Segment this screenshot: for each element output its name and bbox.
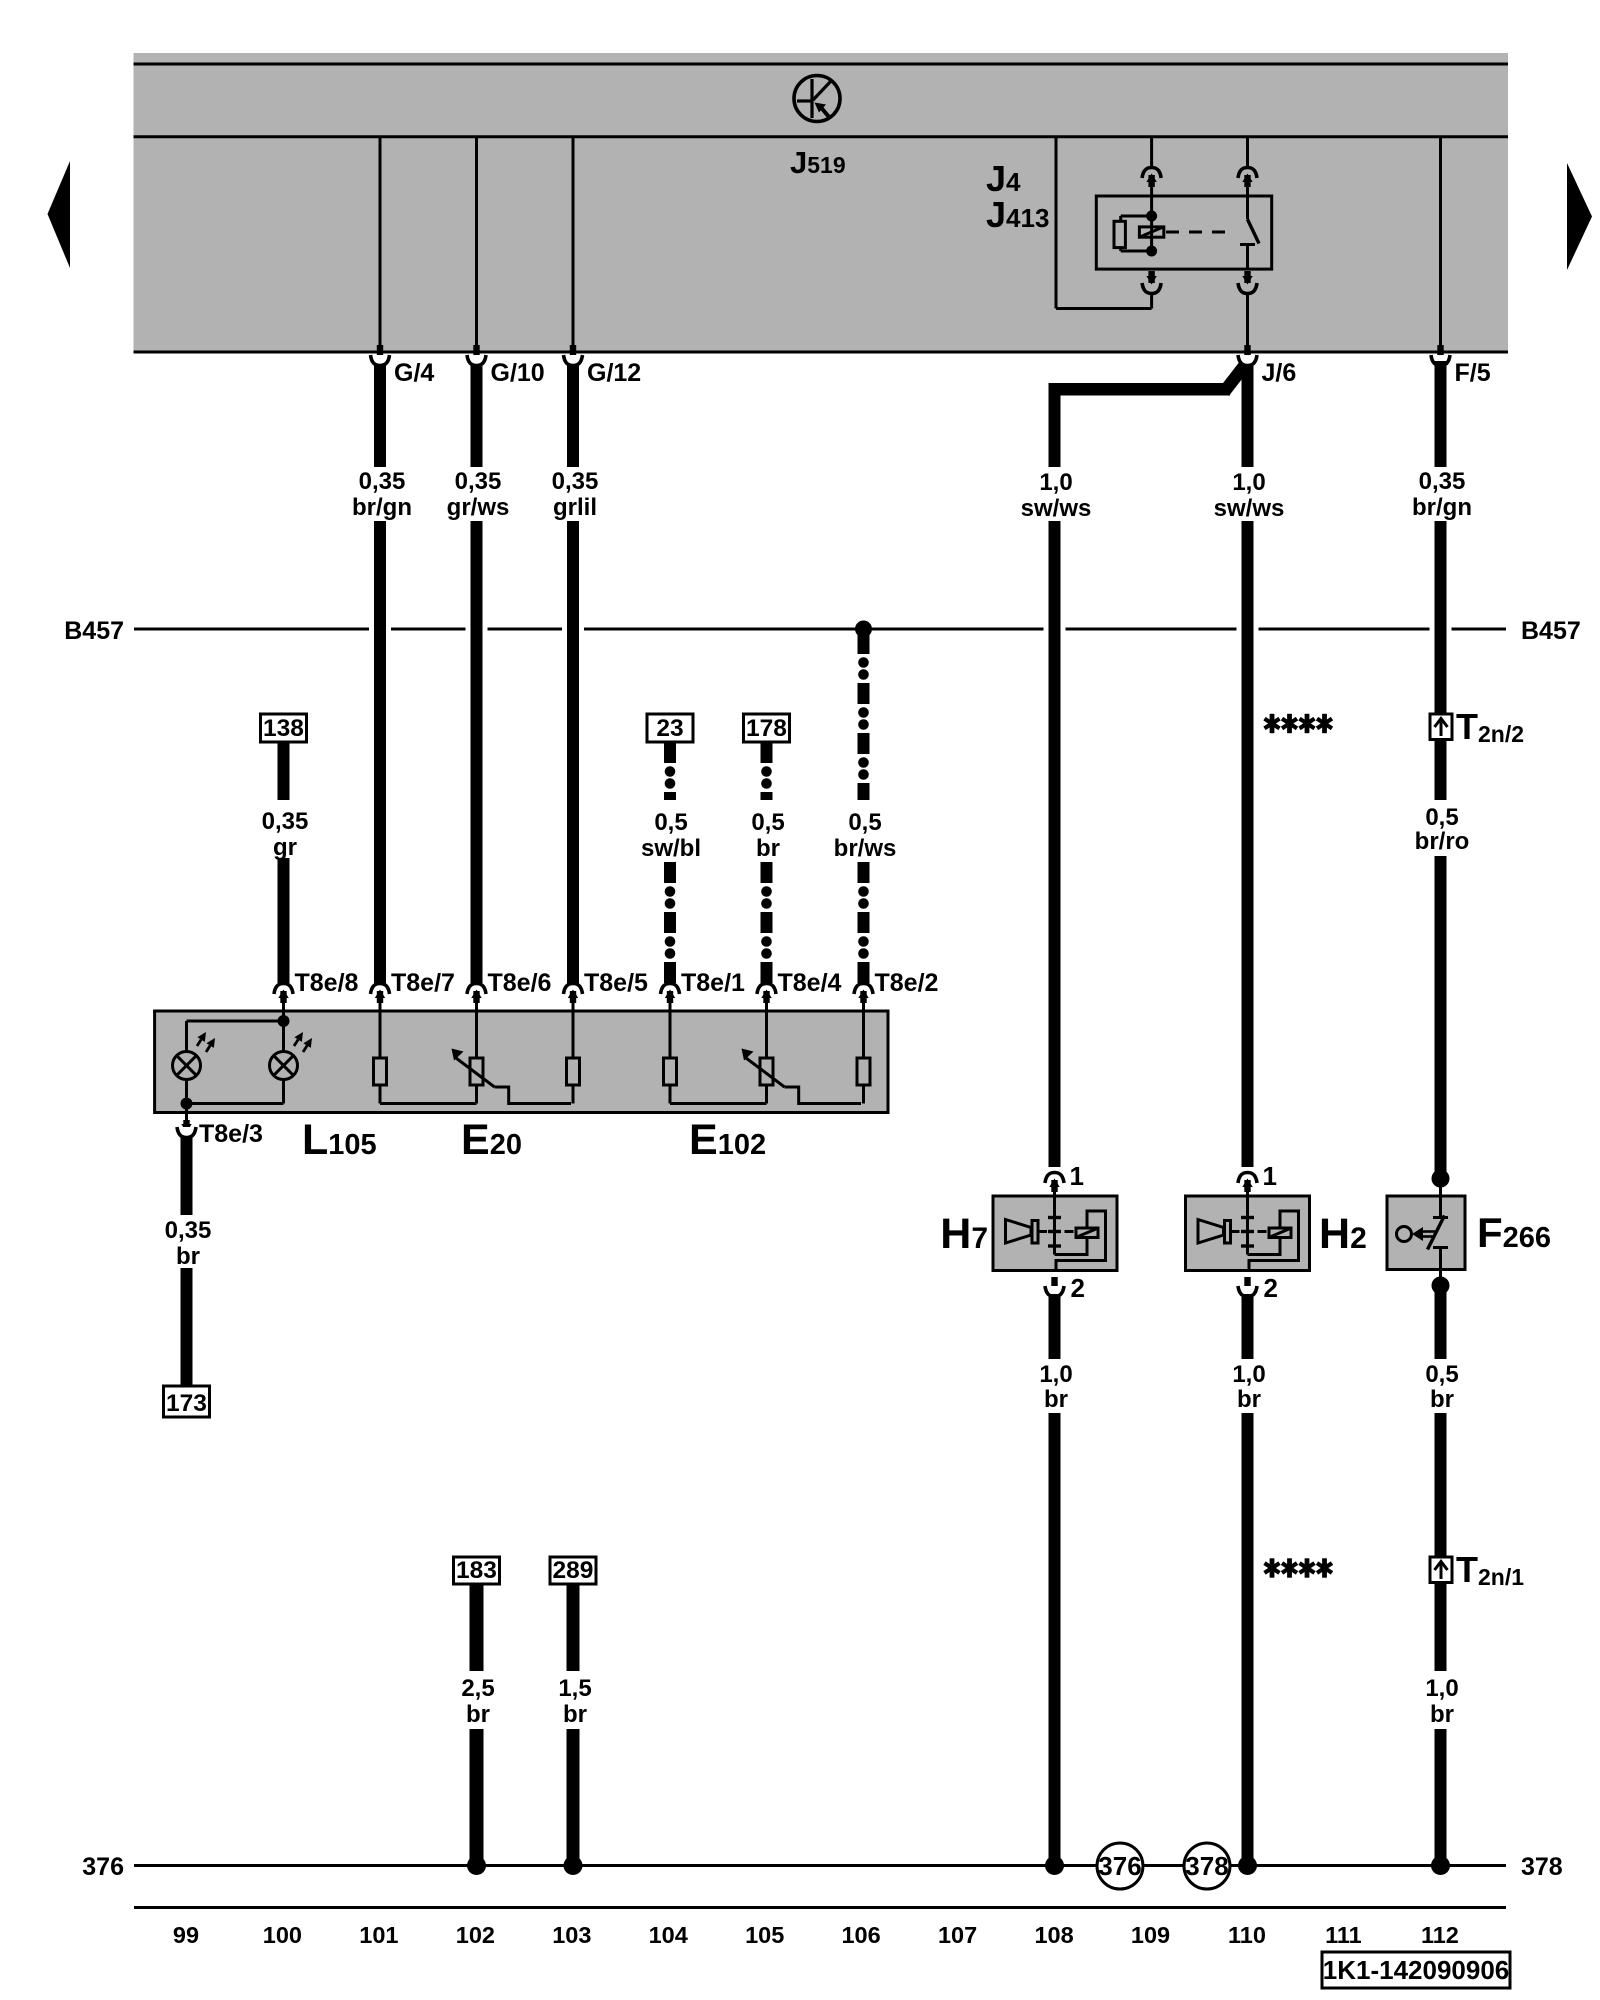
- svg-text:105: 105: [745, 1922, 784, 1948]
- svg-text:br: br: [466, 1701, 490, 1728]
- svg-text:B457: B457: [1521, 617, 1581, 645]
- potentiometer element E20: [470, 1011, 483, 1085]
- rail junction dot x=1247.5: [1238, 1856, 1257, 1875]
- svg-text:1: 1: [1070, 1161, 1084, 1191]
- svg-text:178: 178: [746, 715, 787, 742]
- label J413: [986, 194, 1049, 235]
- svg-text:107: 107: [938, 1922, 977, 1948]
- svg-text:br/gn: br/gn: [1412, 494, 1472, 521]
- wire 0,5 br lower dashed to T8e/4: [761, 862, 773, 983]
- junction dot coil bottom: [1146, 246, 1157, 257]
- wire 1,0 br upper below T2n/1: [1435, 1583, 1447, 1672]
- svg-text:br: br: [176, 1243, 200, 1270]
- wire 1,0 sw/ws upper (H7 branch): [1049, 395, 1061, 467]
- label 0,5 br/ws: [834, 809, 897, 862]
- wire pin T8e/2 into cluster: [862, 1001, 865, 1011]
- label T2n/2: [1456, 706, 1524, 747]
- wire switch pin into relay: [1246, 186, 1249, 219]
- ground box 183: [454, 1557, 500, 1584]
- label T2n/1: [1456, 1549, 1524, 1590]
- svg-text:376: 376: [82, 1853, 124, 1881]
- svg-text:sw/ws: sw/ws: [1021, 495, 1092, 522]
- lamp L105 left bulb: [173, 1021, 216, 1104]
- relay switch bottom plug connector: [1238, 271, 1257, 294]
- wire 0,5 br/ro to F266: [1435, 856, 1447, 1172]
- svg-text:1,0: 1,0: [1232, 469, 1265, 496]
- wire 1,0 br H2 to rail 378: [1242, 1413, 1254, 1862]
- wire 0,5 br/ws lower dashed to T8e/2: [858, 862, 870, 983]
- wire pin1 tail H7: [1053, 1190, 1056, 1196]
- wire 0,35 gr/ws lower to T8e/6: [471, 521, 483, 984]
- label F266: [1477, 1209, 1551, 1256]
- svg-text:T8e/7: T8e/7: [391, 969, 455, 997]
- connector T8e/4: [757, 984, 776, 1004]
- svg-text:0,5: 0,5: [848, 809, 881, 836]
- wire G/4 feed inside J519: [379, 138, 382, 347]
- horn H7 internals: [1006, 1196, 1106, 1271]
- relay coil bottom plug connector: [1142, 271, 1161, 294]
- J519 band inner top line: [134, 63, 1509, 66]
- ground box 289: [550, 1557, 596, 1584]
- svg-text:T8e/4: T8e/4: [778, 969, 842, 997]
- wire G/12 feed inside J519: [572, 138, 575, 347]
- relay coil top plug connector: [1142, 168, 1161, 188]
- wire pin T8e/1 into cluster: [669, 1001, 672, 1011]
- label 0,5 sw/bl: [641, 809, 701, 862]
- wire 2,5 br to rail 376: [470, 1729, 484, 1862]
- svg-text:103: 103: [552, 1922, 591, 1948]
- svg-text:T8e/6: T8e/6: [488, 969, 552, 997]
- wire F/5 feed inside J519: [1439, 138, 1442, 347]
- lamp return junction: [181, 1098, 284, 1113]
- wire 0,5 sw/bl lower dashed to T8e/1: [664, 862, 676, 983]
- wire 0,35 gr upper (138): [278, 742, 290, 800]
- label 0,5 br 178: [751, 809, 784, 862]
- svg-text:1,5: 1,5: [558, 1675, 591, 1702]
- label 1,0 sw/ws H7: [1021, 469, 1092, 522]
- svg-text:2,5: 2,5: [461, 1675, 494, 1702]
- resistor element T8e/2: [857, 1011, 870, 1085]
- wire T8e/8 to lamp junction: [187, 1011, 290, 1027]
- rail junction dot x=573: [564, 1856, 583, 1875]
- label 0,35 br/gn: [352, 468, 412, 521]
- svg-text:1,0: 1,0: [1425, 1675, 1458, 1702]
- rail junction dot x=1440.5: [1431, 1856, 1450, 1875]
- svg-text:1,0: 1,0: [1039, 469, 1072, 496]
- wire E102 group bottom link: [670, 1085, 864, 1104]
- svg-text:T8e/1: T8e/1: [681, 969, 745, 997]
- wire 0,35 br upper (T8e/3): [181, 1137, 193, 1215]
- left continuation arrow: [48, 161, 71, 268]
- junction dot below F266: [1432, 1277, 1450, 1295]
- svg-text:br: br: [756, 835, 780, 862]
- svg-text:E20: E20: [461, 1116, 522, 1164]
- svg-text:111: 111: [1325, 1922, 1362, 1948]
- relay switch contact: [1240, 219, 1259, 269]
- junction dot above F266: [1432, 1170, 1450, 1188]
- net B457 reference line: [134, 628, 1506, 631]
- net circle 378: [1184, 1843, 1230, 1889]
- ground box 173: [164, 1386, 210, 1417]
- svg-text:100: 100: [263, 1922, 302, 1948]
- svg-text:T8e/2: T8e/2: [875, 969, 939, 997]
- svg-text:0,35: 0,35: [262, 808, 309, 835]
- svg-text:J/6: J/6: [1262, 359, 1297, 387]
- wire relay coil return vertical: [1055, 138, 1058, 309]
- wire 0,35 br/gn upper (F/5): [1435, 361, 1447, 467]
- svg-text:0,35: 0,35: [1419, 468, 1466, 495]
- wire pin1 tail H2: [1246, 1190, 1249, 1196]
- svg-text:br: br: [1044, 1386, 1068, 1413]
- svg-text:110: 110: [1228, 1922, 1266, 1948]
- svg-text:1: 1: [1263, 1161, 1277, 1191]
- label 0,35 grlil: [552, 468, 599, 521]
- terminal G/10 on J519: [467, 345, 486, 366]
- svg-text:gr: gr: [273, 834, 297, 861]
- svg-text:99: 99: [173, 1922, 199, 1948]
- svg-text:0,5: 0,5: [1425, 804, 1458, 831]
- label L105: [302, 1116, 377, 1164]
- svg-text:1K1-142090906: 1K1-142090906: [1323, 1955, 1510, 1985]
- wire 1,0 br H7 to rail 376: [1049, 1413, 1061, 1862]
- wire pin T8e/5 into cluster: [572, 1001, 575, 1011]
- label 1,0 br H7: [1039, 1361, 1072, 1413]
- switch F266 box: [1387, 1196, 1465, 1270]
- wire 0,35 br/gn lower to T8e/7: [374, 521, 386, 984]
- junction dot B457 br/ws: [855, 621, 872, 638]
- svg-text:0,35: 0,35: [552, 468, 599, 495]
- svg-text:0,35: 0,35: [359, 468, 406, 495]
- svg-text:0,5: 0,5: [1425, 1361, 1458, 1388]
- terminal G/4 on J519: [371, 345, 390, 366]
- svg-text:gr/ws: gr/ws: [447, 494, 510, 521]
- rail junction dot x=1054.5: [1045, 1856, 1064, 1875]
- svg-text:br: br: [1237, 1386, 1261, 1413]
- wire relay switch feed from bus: [1246, 138, 1249, 168]
- horn H2 box: [1186, 1196, 1310, 1271]
- wire G/10 feed inside J519: [475, 138, 478, 347]
- svg-text:1,0: 1,0: [1232, 1361, 1265, 1388]
- label 1,0 br F column: [1425, 1675, 1458, 1728]
- wire relay coil feed from bus: [1150, 138, 1153, 168]
- wire 0,35 gr/ws upper (G/10): [471, 361, 483, 467]
- wire 0,35 gr to T8e/8: [278, 858, 290, 984]
- svg-text:H2: H2: [1319, 1210, 1367, 1258]
- svg-text:2: 2: [1071, 1273, 1085, 1303]
- connector T8e/8: [274, 984, 293, 1004]
- wire switch pin to J/6 terminal: [1246, 293, 1249, 347]
- wire 1,0 br to rail 378: [1435, 1729, 1447, 1862]
- svg-text:br/ro: br/ro: [1415, 828, 1470, 855]
- connector T8e/1: [661, 984, 680, 1004]
- circled K diagnosis symbol: [794, 76, 840, 122]
- svg-text:br/gn: br/gn: [352, 494, 412, 521]
- potentiometer E102 arrow and wiper: [742, 1049, 862, 1104]
- wire 1,0 br upper (H2): [1242, 1294, 1254, 1359]
- lamp L105 right bulb: [270, 1021, 313, 1104]
- wire 1,0 br upper (H7): [1049, 1294, 1061, 1359]
- label 0,5 br/ro: [1415, 804, 1470, 855]
- label 0,35 br/gn F/5: [1412, 468, 1472, 521]
- terminal J/6 on J519: [1238, 345, 1257, 366]
- inline connector T2n/2: [1430, 714, 1452, 740]
- wire into F266: [1439, 1178, 1442, 1196]
- svg-text:G/10: G/10: [491, 359, 545, 387]
- label J519: [790, 145, 846, 180]
- label E20: [461, 1116, 522, 1164]
- control unit J519 gray band: [134, 53, 1509, 353]
- wire relay coil return horizontal: [1056, 307, 1152, 310]
- wire 0,35 grlil lower to T8e/5: [567, 521, 579, 984]
- svg-text:104: 104: [649, 1922, 688, 1948]
- wire 1,5 br upper (289): [567, 1584, 580, 1671]
- svg-text:T8e/5: T8e/5: [584, 969, 648, 997]
- svg-text:E102: E102: [689, 1116, 766, 1164]
- wire 2,5 br upper (183): [470, 1584, 484, 1671]
- svg-text:T2n/1: T2n/1: [1456, 1549, 1524, 1590]
- svg-text:101: 101: [359, 1922, 398, 1948]
- horn H2 internals: [1198, 1196, 1299, 1271]
- wire 0,5 br/ws upper dashed from B457: [858, 633, 870, 800]
- svg-text:0,5: 0,5: [751, 809, 784, 836]
- ground rail 376/378: [134, 1864, 1506, 1867]
- wire pin T8e/6 into cluster: [475, 1001, 478, 1011]
- svg-text:183: 183: [456, 1557, 497, 1584]
- svg-text:0,35: 0,35: [165, 1217, 212, 1244]
- relay coil element: [1139, 216, 1163, 251]
- terminal F/5 on J519: [1431, 345, 1450, 366]
- terminal G/12 on J519: [564, 345, 583, 366]
- label 0,35 br: [165, 1217, 212, 1270]
- label 1,0 sw/ws H2: [1214, 469, 1285, 522]
- svg-text:102: 102: [456, 1922, 495, 1948]
- splice box 138: [261, 714, 307, 742]
- relay switch top plug connector: [1238, 168, 1257, 188]
- svg-text:2: 2: [1264, 1273, 1278, 1303]
- svg-text:G/12: G/12: [587, 359, 641, 387]
- potentiometer element E102: [760, 1011, 773, 1085]
- label 1,0 br H2: [1232, 1361, 1265, 1413]
- wire 0,5 br upper dashed: [761, 742, 773, 800]
- wire 0,5 sw/bl upper dashed: [664, 742, 676, 800]
- wire branch horizontal to H7 column: [1049, 383, 1231, 396]
- svg-text:289: 289: [553, 1557, 594, 1584]
- inline connector T2n/1: [1430, 1557, 1452, 1583]
- svg-text:F/5: F/5: [1455, 359, 1491, 387]
- svg-text:0,35: 0,35: [455, 468, 502, 495]
- wire 1,0 sw/ws to H2: [1242, 521, 1254, 1167]
- right continuation arrow: [1567, 163, 1592, 270]
- switch F266 internals: [1397, 1196, 1449, 1270]
- svg-text:112: 112: [1421, 1922, 1459, 1948]
- relay J4/J413 outline: [1096, 196, 1271, 269]
- connector T8e/6: [467, 984, 486, 1004]
- wire E20 group bottom link: [380, 1085, 573, 1104]
- svg-text:L105: L105: [302, 1116, 377, 1164]
- svg-text:B457: B457: [64, 617, 124, 645]
- rail junction dot x=476.5: [467, 1856, 486, 1875]
- svg-text:0,5: 0,5: [654, 809, 687, 836]
- instrument cluster box: [155, 1011, 888, 1113]
- svg-text:1,0: 1,0: [1039, 1361, 1072, 1388]
- wire coil pin into relay: [1150, 186, 1153, 216]
- horn H7 box: [993, 1196, 1117, 1271]
- svg-text:T8e/3: T8e/3: [199, 1120, 263, 1148]
- svg-text:F266: F266: [1477, 1209, 1551, 1256]
- connector T8e/3: [177, 1120, 196, 1138]
- label J4: [986, 158, 1021, 199]
- label 0,35 gr: [262, 808, 309, 861]
- svg-text:sw/ws: sw/ws: [1214, 495, 1285, 522]
- label 1,5 br: [558, 1675, 591, 1728]
- resistor element T8e/7: [374, 1011, 387, 1085]
- connector T8e/2: [854, 984, 873, 1004]
- note asterisks upper: [1265, 714, 1333, 733]
- wire 0,5 br/ro upper: [1435, 740, 1447, 801]
- resistor element T8e/1: [664, 1011, 677, 1085]
- track number strip line: [134, 1906, 1506, 1909]
- resistor element T8e/5: [567, 1011, 580, 1085]
- svg-text:106: 106: [841, 1922, 880, 1948]
- svg-text:378: 378: [1521, 1853, 1563, 1881]
- connector pin 1 H2: [1238, 1173, 1257, 1193]
- label 0,35 gr/ws: [447, 468, 510, 521]
- wire pin T8e/4 into cluster: [765, 1001, 768, 1011]
- wire 1,5 br to rail 376: [567, 1729, 580, 1862]
- svg-text:378: 378: [1185, 1851, 1228, 1881]
- svg-text:108: 108: [1034, 1922, 1073, 1948]
- label H2: [1319, 1210, 1367, 1258]
- label E102: [689, 1116, 766, 1164]
- note asterisks lower: [1265, 1558, 1333, 1577]
- svg-text:23: 23: [656, 715, 683, 742]
- track numbers: [173, 1922, 1459, 1948]
- svg-text:G/4: G/4: [394, 359, 434, 387]
- wire pin T8e/3 from cluster: [185, 1113, 188, 1125]
- connector pin 1 H7: [1045, 1173, 1064, 1193]
- svg-text:T8e/8: T8e/8: [295, 969, 359, 997]
- connector pin 2 H7: [1045, 1277, 1064, 1297]
- relay actuation dashed line: [1166, 231, 1232, 234]
- wire coil pin to return: [1150, 293, 1153, 309]
- svg-text:grlil: grlil: [553, 494, 597, 521]
- svg-text:sw/bl: sw/bl: [641, 835, 701, 862]
- J519 band inner bus line: [134, 135, 1509, 138]
- label H7: [940, 1210, 988, 1258]
- svg-text:H7: H7: [940, 1210, 988, 1258]
- wire 0,35 br/gn to T2n/2: [1435, 521, 1447, 714]
- wire 0,35 br to ground 173: [181, 1268, 193, 1386]
- wire branch diagonal J/6 to H7: [1224, 363, 1247, 392]
- relay suppression resistor: [1114, 216, 1152, 251]
- wire 1,0 sw/ws upper (J/6) to H2: [1242, 361, 1254, 467]
- J519 band bottom edge: [134, 351, 1509, 354]
- potentiometer E20 arrow and wiper: [452, 1049, 572, 1104]
- label 2,5 br: [461, 1675, 494, 1728]
- svg-text:109: 109: [1131, 1922, 1170, 1948]
- svg-text:br: br: [1430, 1701, 1454, 1728]
- svg-text:br/ws: br/ws: [834, 835, 897, 862]
- label 0,5 br F266: [1425, 1361, 1458, 1413]
- splice box 23: [647, 714, 693, 742]
- svg-text:376: 376: [1098, 1851, 1141, 1881]
- diagram number box 1K1-142090906: [1322, 1952, 1510, 1988]
- wire 0,35 br/gn upper (G/4): [374, 361, 386, 467]
- wire 1,0 sw/ws to H7: [1049, 521, 1061, 1167]
- svg-text:138: 138: [263, 715, 304, 742]
- wire 0,5 br upper (F266): [1435, 1290, 1447, 1359]
- wire pin T8e/8 into cluster: [282, 1001, 285, 1011]
- connector T8e/7: [371, 984, 390, 1004]
- svg-text:T2n/2: T2n/2: [1456, 706, 1524, 747]
- wire pin T8e/7 into cluster: [379, 1001, 382, 1011]
- svg-text:173: 173: [166, 1390, 207, 1417]
- net circle 376: [1097, 1843, 1143, 1889]
- wire 0,35 grlil upper (G/12): [567, 361, 579, 467]
- connector pin 2 H2: [1238, 1277, 1257, 1297]
- junction dot coil top: [1146, 211, 1157, 222]
- wire out of F266: [1439, 1270, 1442, 1286]
- wire 0,5 br to T2n/1: [1435, 1413, 1447, 1557]
- svg-text:br: br: [563, 1701, 587, 1728]
- svg-text:br: br: [1430, 1386, 1454, 1413]
- splice box 178: [744, 714, 790, 742]
- connector T8e/5: [564, 984, 583, 1004]
